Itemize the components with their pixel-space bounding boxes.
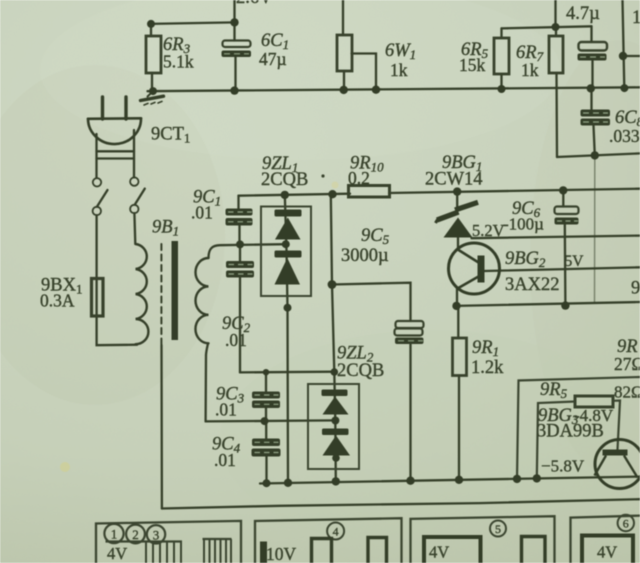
connector comb 1	[106, 542, 183, 563]
svg-text:.01: .01	[225, 330, 247, 350]
svg-text:4V: 4V	[597, 543, 617, 562]
svg-text:-100µ: -100µ	[503, 215, 544, 234]
svg-text:.01: .01	[191, 203, 213, 223]
diode D3	[322, 390, 349, 415]
resistor 9R1	[453, 338, 467, 376]
staple box4	[582, 536, 633, 563]
transformer core bar	[172, 241, 179, 340]
pin circle 5	[490, 521, 506, 537]
svg-text:1k: 1k	[521, 60, 539, 80]
svg-text:−5.8V: −5.8V	[541, 457, 585, 476]
wire 6C8 bottom lead	[594, 126, 595, 156]
svg-text:3: 3	[153, 527, 160, 542]
terminal box 4	[571, 516, 640, 563]
svg-text:27Ω: 27Ω	[614, 354, 640, 374]
wire 9C4 bottom lead	[265, 457, 267, 484]
svg-text:.01: .01	[214, 450, 236, 470]
svg-text:47µ: 47µ	[259, 49, 287, 69]
svg-text:15k: 15k	[459, 55, 486, 75]
potentiometer 6W1	[337, 35, 352, 71]
pin circle 6	[618, 515, 634, 531]
wire fuse bottom to primary	[97, 316, 137, 345]
plug prong right	[124, 97, 127, 119]
svg-text:4: 4	[333, 525, 339, 539]
speck	[321, 174, 324, 177]
wire 421 link	[206, 420, 336, 421]
transistor 9BG2	[449, 243, 500, 294]
diode D4	[322, 429, 350, 456]
wire right pole down	[133, 213, 136, 244]
wire secondary bottom lead	[206, 344, 208, 422]
wire 9C2 top lead	[239, 244, 241, 261]
svg-text:5V: 5V	[565, 253, 585, 270]
pin circle 3	[147, 525, 165, 543]
wire 9R1 top lead	[457, 306, 459, 338]
wire 372 link	[240, 371, 334, 374]
wire left pole down to fuse	[95, 215, 97, 278]
svg-text:10V: 10V	[266, 544, 297, 563]
staple 2 box2	[368, 538, 387, 563]
connector comb 2	[203, 539, 232, 563]
wire 6R7 bottom long lead crossing bus	[555, 73, 558, 157]
zener 9BG1	[436, 202, 479, 237]
capacitor 9C6	[555, 207, 579, 225]
wire zener rail right	[472, 236, 640, 239]
wire zener to transistor	[457, 237, 459, 250]
connector bar box2	[260, 542, 267, 563]
rectifier 9ZL1 box	[261, 207, 311, 297]
wire emitter lead	[456, 288, 458, 307]
svg-text:2CQB: 2CQB	[337, 361, 384, 381]
wire 6R7 top lead	[555, 27, 557, 36]
svg-text:2CW14: 2CW14	[425, 170, 483, 190]
wire 191 rail right part	[389, 189, 640, 193]
svg-text:4V: 4V	[107, 544, 127, 563]
staple 1 box2	[312, 539, 332, 563]
soft blotches	[0, 65, 225, 405]
plug body	[88, 117, 141, 120]
switch lever right	[135, 189, 145, 205]
wire 191 rail left part	[239, 194, 351, 196]
wire bottom component bus	[260, 477, 640, 484]
capacitor 4.7u	[578, 42, 608, 61]
wire 4.7u bottom lead	[591, 61, 593, 90]
stain spot 2	[332, 182, 339, 189]
svg-text:4.7µ: 4.7µ	[566, 4, 600, 24]
svg-text:2CQB: 2CQB	[261, 170, 308, 190]
bottom connector boxes	[96, 516, 640, 563]
svg-text:.01: .01	[215, 400, 237, 420]
fuse 9BX1	[92, 279, 104, 317]
svg-text:6: 6	[623, 517, 629, 531]
svg-text:3DA99B: 3DA99B	[537, 422, 604, 442]
capacitor 9C3	[252, 392, 280, 409]
frame left edge	[160, 345, 163, 509]
svg-text:5.2V: 5.2V	[472, 221, 505, 240]
pin circle 4	[327, 523, 344, 540]
svg-text:9: 9	[631, 279, 640, 299]
wire main top bus	[148, 87, 640, 91]
wire 4.7u top lead	[590, 26, 592, 42]
primary coil	[136, 244, 149, 344]
wire top feed to 6C1 node	[233, 0, 235, 23]
wire 9C5 branch	[332, 283, 411, 321]
wire 6R5 top lead	[500, 28, 502, 38]
switch circle left bottom	[93, 207, 101, 215]
wire 9C1 top lead	[237, 196, 239, 209]
staple big box3	[424, 537, 481, 563]
svg-text:5: 5	[495, 522, 501, 536]
transistor 9BG3	[595, 440, 640, 489]
svg-text:5.1k: 5.1k	[163, 52, 194, 72]
pin circle 1	[104, 524, 123, 543]
capacitor 9C2	[226, 261, 254, 278]
frame bottom line	[162, 499, 640, 508]
wire fuse inner	[95, 280, 97, 315]
svg-text:1k: 1k	[390, 60, 408, 80]
wire 9C5 bottom lead	[409, 344, 411, 481]
box 9BG3 outer	[517, 377, 640, 479]
wire 4.7u feed from top	[554, 0, 556, 27]
svg-text:82Ω: 82Ω	[614, 383, 640, 402]
wire 9C1 bottom lead	[238, 226, 240, 245]
resistor 9R5	[575, 396, 613, 407]
wire base rail	[485, 267, 640, 271]
pin circle 2	[126, 525, 145, 544]
svg-text:2.6V: 2.6V	[236, 0, 273, 8]
stain spot	[60, 462, 70, 472]
node dots	[147, 18, 628, 487]
wire zener top lead	[456, 192, 458, 214]
wire 6C1 bottom lead	[234, 57, 236, 91]
staple small box3	[522, 537, 546, 563]
terminal box 1	[96, 521, 241, 563]
svg-text:1.2k: 1.2k	[471, 358, 504, 378]
capacitor 6C8 .033	[581, 110, 611, 126]
wire 9C2 bottom long lead	[239, 278, 241, 373]
wire bridge1 column	[285, 195, 288, 483]
switch circle left top	[93, 178, 101, 186]
svg-text:3AX22: 3AX22	[505, 275, 559, 295]
secondary coil	[195, 258, 208, 343]
resistor 9R10	[349, 186, 390, 198]
box 9BG3 inner	[537, 401, 620, 479]
wire 6R3 top lead	[150, 24, 152, 36]
resistor 6R5	[494, 38, 509, 74]
wire 9R1 bottom lead	[458, 376, 460, 481]
terminal box 3	[411, 516, 555, 563]
wire 6W1 bottom lead	[343, 71, 345, 90]
svg-text:0.3A: 0.3A	[40, 291, 75, 311]
wire 9C4 top stub	[265, 421, 267, 438]
wire emitter rail	[457, 302, 640, 306]
wire 6C1 top lead	[233, 22, 235, 40]
capacitor 9C4	[252, 439, 281, 457]
switch lever left	[97, 190, 108, 207]
wire 9C6 bottom lead 5V rail	[564, 225, 567, 306]
rectifier 9ZL2 box	[308, 384, 359, 469]
svg-text:1: 1	[111, 527, 118, 542]
switch circle right bottom	[130, 205, 138, 213]
svg-text:4V: 4V	[429, 543, 449, 562]
wire right edge column	[623, 0, 625, 88]
terminal box 2	[255, 518, 402, 563]
wire 6R5 bottom lead	[500, 74, 502, 89]
wire 156 rail to right edge	[557, 153, 640, 157]
wire secondary top to bridge mid	[209, 244, 287, 258]
svg-text:.033: .033	[609, 126, 640, 146]
wire faint drop from 156 rail	[594, 155, 596, 302]
diode D2	[275, 251, 302, 285]
wire 6W1 top feed	[342, 0, 344, 35]
resistor 6R7	[549, 36, 563, 73]
capacitor 9C5	[395, 321, 424, 344]
svg-text:2: 2	[132, 527, 139, 542]
wire 6W1 wiper	[352, 54, 377, 90]
wire 6R5 6R7 top rail	[502, 26, 592, 28]
svg-text:0.2: 0.2	[348, 168, 370, 188]
ground	[141, 91, 164, 105]
cable rungs	[97, 151, 135, 158]
capacitor 9C1	[226, 209, 253, 226]
wire 9C6 top lead	[562, 190, 564, 206]
wire 9C3 bottom stub	[265, 408, 267, 421]
svg-text:3000µ: 3000µ	[341, 246, 389, 266]
capacitor 6C1	[222, 41, 252, 58]
core dashed line	[160, 244, 162, 345]
wire 9C3 top stub	[265, 372, 267, 391]
wire right edge stub	[623, 55, 640, 57]
wire 6C8 top lead	[590, 89, 592, 110]
switch circle right top	[130, 177, 138, 185]
svg-text:1: 1	[632, 8, 640, 28]
wire node to 6R3	[150, 22, 235, 24]
plug prong left	[101, 97, 104, 119]
wire 6R3 bottom lead	[151, 73, 153, 91]
plug cable lines	[95, 134, 97, 178]
diode D1	[275, 210, 302, 240]
wire rail right of bridge1	[331, 195, 336, 482]
resistor 6R3	[146, 36, 161, 73]
